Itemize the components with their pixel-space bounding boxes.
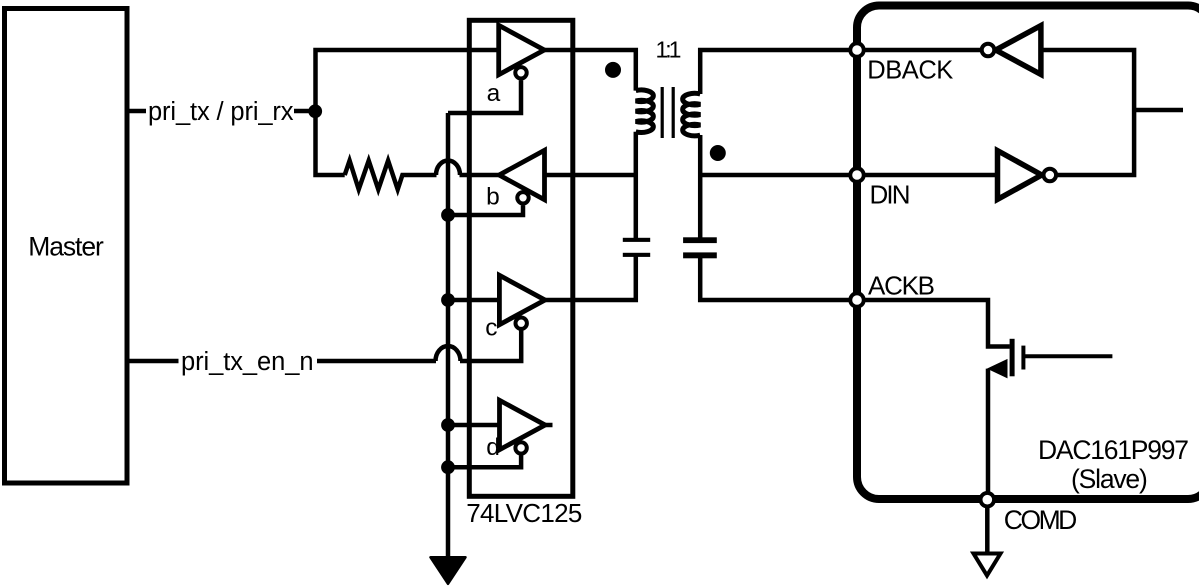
svg-text:DAC161P997: DAC161P997 xyxy=(1038,435,1189,465)
svg-text:(Slave): (Slave) xyxy=(1071,464,1148,494)
svg-text:74LVC125: 74LVC125 xyxy=(466,498,582,528)
svg-text:DBACK: DBACK xyxy=(867,57,953,85)
svg-text:ACKB: ACKB xyxy=(868,270,935,300)
svg-text:Master: Master xyxy=(28,232,104,262)
svg-text:b: b xyxy=(486,184,500,211)
svg-text:1:1: 1:1 xyxy=(656,37,681,63)
svg-text:pri_tx / pri_rx: pri_tx / pri_rx xyxy=(148,98,294,126)
svg-text:pri_tx_en_n: pri_tx_en_n xyxy=(181,348,314,376)
svg-text:a: a xyxy=(487,80,501,107)
svg-text:COMD: COMD xyxy=(1004,505,1078,535)
svg-text:d: d xyxy=(486,434,500,461)
svg-text:DIN: DIN xyxy=(870,180,911,210)
svg-text:c: c xyxy=(485,314,497,341)
